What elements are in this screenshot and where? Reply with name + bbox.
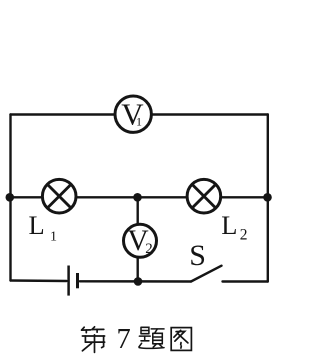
wire bottom left segment to battery [11,279,67,282]
node middle junction [133,193,142,202]
caption CJK character 图 (hand-drawn strokes) [171,328,191,351]
caption CJK character 题 (hand-drawn strokes) [139,327,164,348]
caption CJK character 第 (hand-drawn strokes) [82,327,105,353]
svg-text:1: 1 [50,230,57,245]
wire left vertical [9,115,11,281]
wire middle horizontal [11,196,268,198]
battery short plate [76,273,79,288]
svg-text:S: S [189,239,206,272]
svg-text:L: L [221,210,237,240]
label L2 [221,210,247,243]
wire bottom switch stub to corner [223,280,268,282]
wire top horizontal [11,113,268,115]
lamp L2 [187,179,221,213]
node bottom junction [134,277,143,286]
node right junction [263,193,272,202]
wire bottom battery to switch hinge [80,280,191,283]
voltmeter V2 [124,224,157,257]
svg-text:7: 7 [117,324,131,355]
lamp L1 [42,179,76,213]
battery long plate [67,266,70,296]
label L1 [29,210,58,244]
switch S arm [191,266,222,282]
voltmeter V1 [115,96,151,132]
svg-text:1: 1 [136,115,142,129]
svg-text:2: 2 [145,241,153,257]
svg-text:L: L [29,210,45,240]
svg-text:2: 2 [240,226,248,243]
node left junction [6,193,15,202]
wire right vertical [267,115,269,282]
wire V2 riser vertical [136,197,138,281]
